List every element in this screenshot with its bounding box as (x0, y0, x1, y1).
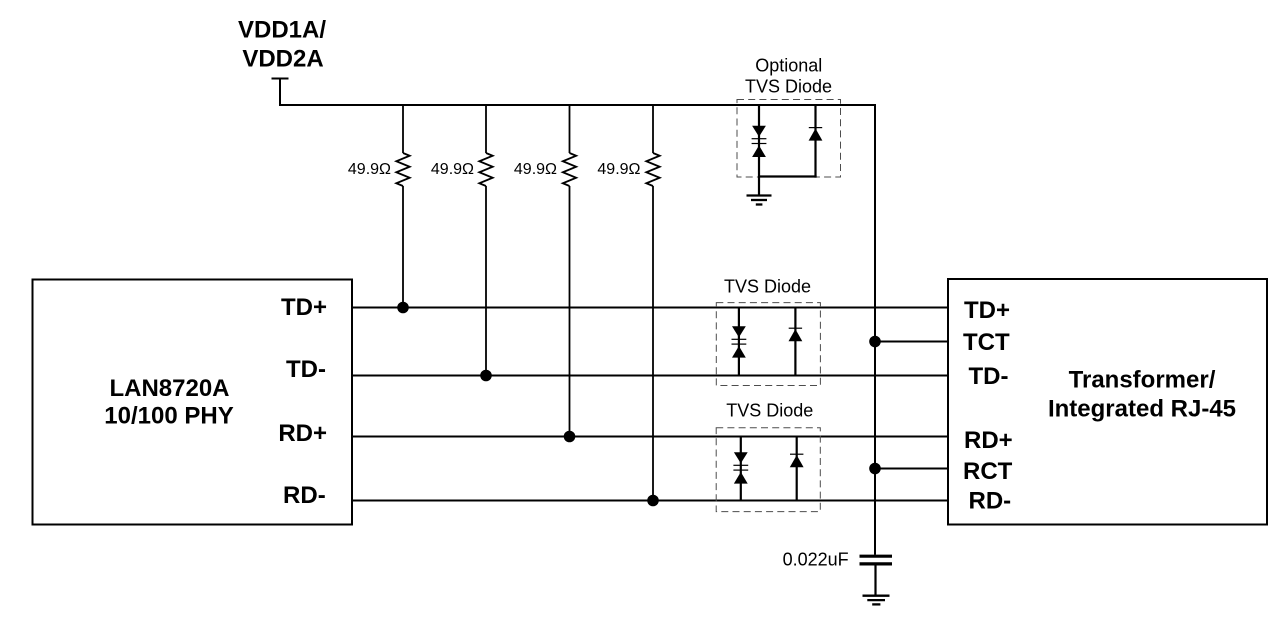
wire TD- (352, 375, 948, 377)
svg-text:49.9Ω: 49.9Ω (348, 161, 391, 178)
svg-text:VDD1A/: VDD1A/ (238, 17, 326, 44)
svg-text:10/100 PHY: 10/100 PHY (104, 403, 233, 430)
junction bus/TCT (869, 336, 881, 348)
U1 LAN8720A PHY box (33, 280, 353, 525)
wire RD- (352, 500, 948, 502)
optional TVS diode D1 (top) (737, 100, 841, 196)
svg-text:TD+: TD+ (964, 297, 1010, 324)
svg-text:TD+: TD+ (281, 294, 327, 321)
wire capacitor to ground (874, 566, 876, 596)
wire RD+ (352, 436, 948, 438)
svg-text:Transformer/: Transformer/ (1069, 367, 1216, 394)
svg-text:RD+: RD+ (278, 420, 327, 447)
capacitor C1 0.022uF (860, 556, 893, 564)
svg-text:49.9Ω: 49.9Ω (514, 161, 557, 178)
resistor R 49.9 ohm #3 (563, 105, 576, 437)
svg-text:TCT: TCT (963, 329, 1010, 356)
ground (capacitor) (863, 596, 890, 605)
junction R4/RD- (647, 495, 659, 507)
svg-text:TD-: TD- (286, 356, 326, 383)
ground (optional TVS) (747, 196, 772, 205)
U2 Transformer/Integrated RJ-45 box (948, 279, 1267, 525)
svg-text:LAN8720A: LAN8720A (109, 375, 229, 402)
resistor R 49.9 ohm #1 (396, 105, 409, 308)
resistor R 49.9 ohm #2 (479, 105, 492, 376)
svg-text:TVS Diode: TVS Diode (745, 76, 832, 96)
svg-text:Integrated RJ-45: Integrated RJ-45 (1048, 396, 1236, 423)
svg-text:0.022uF: 0.022uF (783, 550, 849, 570)
power VDD1A/VDD2A label (238, 17, 326, 73)
wire top VDD bus (280, 104, 875, 106)
svg-text:RD-: RD- (283, 482, 326, 509)
junction bus/RCT (869, 463, 881, 475)
TVS diode D3 (RD pair) (716, 428, 820, 512)
wire TD+ (352, 307, 948, 309)
svg-text:TVS Diode: TVS Diode (724, 277, 811, 297)
junction R1/TD+ (397, 302, 409, 314)
junction R2/TD- (480, 370, 492, 382)
TVS diode D2 (TD pair) (716, 303, 820, 386)
wire right vertical bus (874, 104, 876, 555)
svg-text:Optional: Optional (755, 56, 822, 76)
wire TCT (875, 341, 948, 343)
svg-text:49.9Ω: 49.9Ω (597, 161, 640, 178)
svg-text:TVS Diode: TVS Diode (726, 401, 813, 421)
svg-text:VDD2A: VDD2A (242, 46, 323, 73)
label Optional TVS Diode (745, 56, 832, 97)
wire RCT (875, 468, 948, 470)
junction R3/RD+ (564, 431, 576, 443)
svg-text:RD-: RD- (969, 488, 1012, 515)
power VDD rail bar symbol (272, 79, 289, 107)
svg-text:RD+: RD+ (964, 427, 1013, 454)
svg-text:TD-: TD- (969, 363, 1009, 390)
resistor R 49.9 ohm #4 (646, 105, 659, 501)
svg-text:RCT: RCT (963, 458, 1013, 485)
svg-text:49.9Ω: 49.9Ω (431, 161, 474, 178)
